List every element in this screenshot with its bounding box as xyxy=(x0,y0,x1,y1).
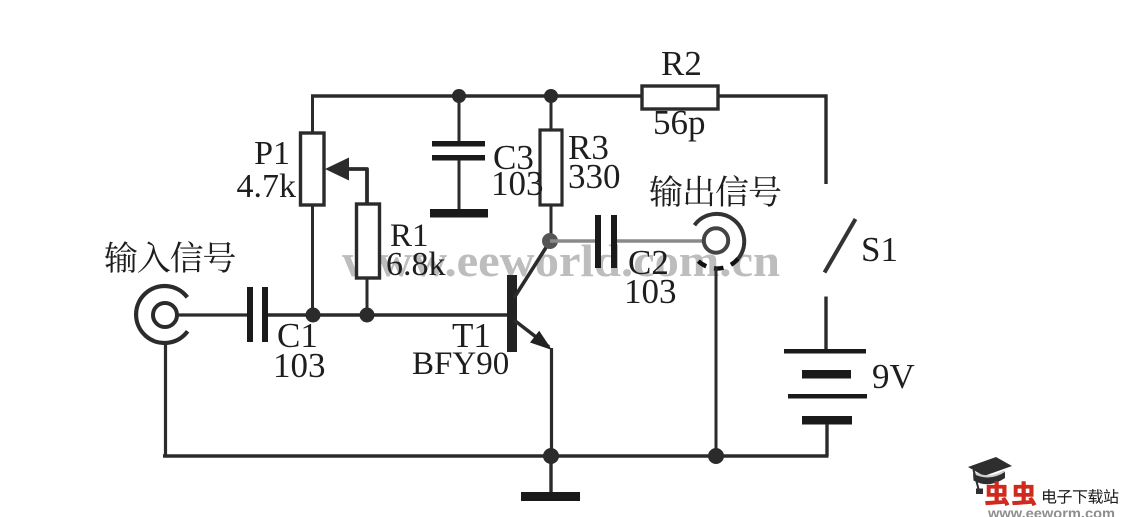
svg-text:103: 103 xyxy=(624,272,677,311)
potentiometer P1 xyxy=(301,133,325,205)
svg-text:6.8k: 6.8k xyxy=(386,246,446,283)
battery plate short 2 xyxy=(802,416,852,425)
battery plate short 1 xyxy=(802,370,851,379)
battery plate long 1 xyxy=(784,349,866,354)
node P1 base junction xyxy=(306,308,321,323)
capacitor C1 plate left xyxy=(247,287,253,342)
ground bar xyxy=(521,492,580,501)
capacitor C2 plate right xyxy=(611,215,617,268)
wire to P1 top xyxy=(311,95,314,134)
svg-text:9V: 9V xyxy=(872,357,915,396)
wire C3 top xyxy=(458,96,461,142)
svg-text:56p: 56p xyxy=(653,103,706,142)
node emitter rail junction xyxy=(543,448,559,464)
label input signal xyxy=(105,241,137,273)
svg-text:330: 330 xyxy=(568,157,621,196)
wire R1 bottom xyxy=(366,278,369,315)
node collector junction xyxy=(542,233,558,249)
resistor R2 xyxy=(642,86,718,109)
wire input to C1 xyxy=(177,313,247,316)
output jack outer solid xyxy=(695,214,745,259)
wire collector to C2 xyxy=(550,239,596,243)
ground stem xyxy=(549,456,552,492)
svg-text:4.7k: 4.7k xyxy=(237,168,297,205)
input jack inner xyxy=(153,303,177,327)
wire base xyxy=(268,313,509,317)
P1 wiper arrow xyxy=(325,158,367,205)
svg-text:P1: P1 xyxy=(254,135,290,172)
logo graduation cap xyxy=(968,457,1012,494)
wire top rail right segment xyxy=(717,94,828,97)
wire R3 top xyxy=(550,96,553,130)
wire output jack down xyxy=(715,268,718,458)
node C3 top junction xyxy=(452,89,466,103)
node R1 base junction xyxy=(360,308,375,323)
wire C3 stem xyxy=(458,160,461,210)
wire P1 bottom xyxy=(311,205,314,315)
svg-text:R2: R2 xyxy=(661,44,702,83)
capacitor C1 plate right xyxy=(262,287,268,342)
battery plate long 2 xyxy=(788,394,867,399)
wire C2 to output jack xyxy=(617,239,704,243)
transistor T1 base bar xyxy=(507,275,517,352)
node R3 top junction xyxy=(544,89,558,103)
svg-text:103: 103 xyxy=(273,346,326,385)
C3 ground bar xyxy=(430,209,488,218)
switch S1 blade xyxy=(825,219,856,273)
svg-text:BFY90: BFY90 xyxy=(412,346,509,382)
label output signal xyxy=(650,175,682,207)
svg-text:www.eeworm.com: www.eeworm.com xyxy=(987,506,1115,517)
capacitor C2 plate left xyxy=(595,215,601,268)
resistor R1 xyxy=(357,204,380,278)
resistor R3 xyxy=(540,130,562,205)
capacitor C3 plate top xyxy=(432,141,485,147)
transistor T1 emitter arrow xyxy=(530,331,552,350)
output jack inner xyxy=(704,228,728,252)
svg-text:103: 103 xyxy=(491,164,544,203)
wire R3 bottom xyxy=(550,205,553,241)
wire emitter down xyxy=(550,348,553,457)
logo text dianzi xiazai zhan xyxy=(1043,489,1056,503)
wire bottom rail xyxy=(163,454,829,457)
wire top rail to S1 xyxy=(824,95,827,185)
wire battery down xyxy=(825,424,828,456)
wire S1 to battery xyxy=(824,297,827,351)
node output rail junction xyxy=(708,448,724,464)
output jack outer dashed xyxy=(695,258,738,269)
svg-text:S1: S1 xyxy=(861,230,898,269)
wire input jack down xyxy=(164,344,167,458)
capacitor C3 plate bottom xyxy=(432,155,485,161)
logo chongchong red characters xyxy=(985,481,1009,506)
wire top rail left segment xyxy=(311,94,643,97)
transistor T1 collector xyxy=(514,242,550,298)
transistor T1 emitter xyxy=(514,320,549,347)
input jack outer xyxy=(136,286,188,343)
